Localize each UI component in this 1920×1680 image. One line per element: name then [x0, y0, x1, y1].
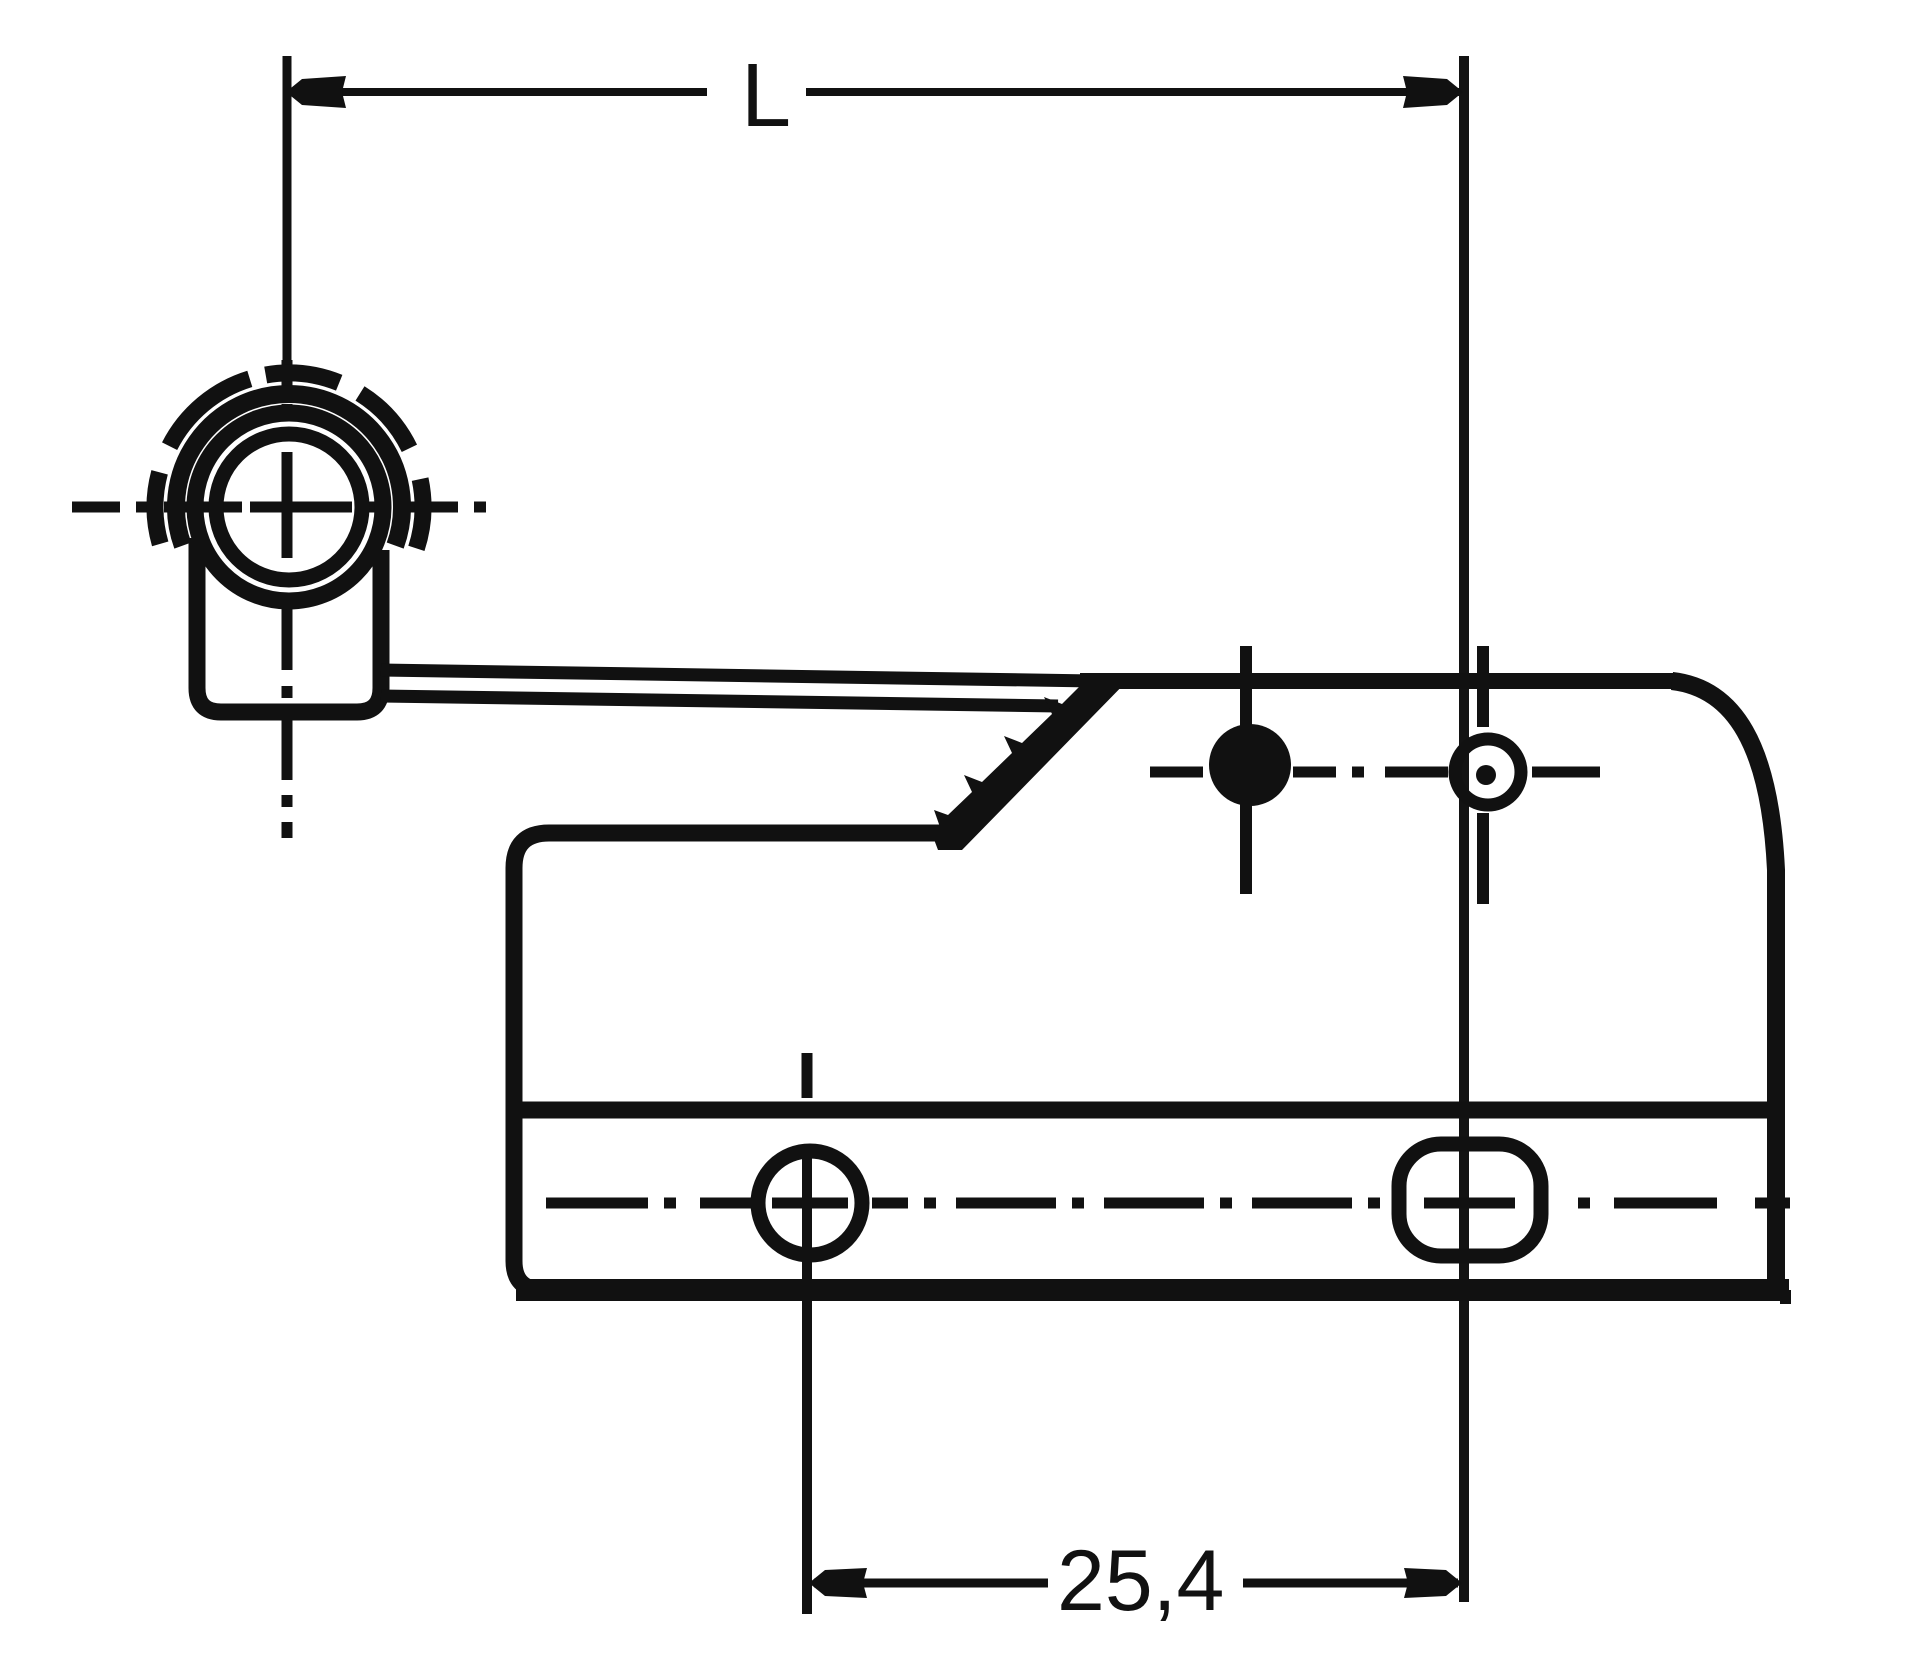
holes horizontal centerline — [546, 1198, 1790, 1209]
plunger vertical centerline — [1240, 646, 1252, 894]
svg-text:25,4: 25,4 — [1057, 1533, 1224, 1629]
bottom dimension line 25,4 left segment — [814, 1579, 1048, 1588]
roller dashed arc (alternate position) — [155, 373, 423, 548]
lever arm bottom line — [381, 696, 1058, 706]
body bottom edge — [516, 1279, 1789, 1301]
lever bracket (clevis) — [197, 538, 381, 712]
mounting hole obround — [1399, 1144, 1541, 1256]
arrowhead right of 25,4 — [1404, 1568, 1462, 1598]
arrowhead left of L dimension — [286, 76, 346, 108]
plunger pin (filled circle) — [1209, 724, 1291, 806]
extension line right (long vertical through body) — [1459, 56, 1469, 1602]
small circle (pin hole) — [1455, 739, 1521, 805]
mounting hole round — [758, 1151, 862, 1255]
round hole centerline + extension line down — [802, 1147, 812, 1614]
body right rounded corner and right edge — [1672, 681, 1776, 1290]
dimension line L left segment — [291, 88, 707, 96]
svg-text:L: L — [741, 46, 791, 146]
body step top line + left edge + bottom-left corner — [514, 833, 952, 1290]
lever arm top line — [381, 670, 1094, 681]
roller vertical centerline — [282, 360, 293, 838]
bottom-right corner nub — [1780, 1290, 1791, 1304]
round hole vertical centerline tick above midline — [802, 1053, 813, 1098]
roller inner circle (pin) — [216, 434, 362, 580]
arrowhead left of 25,4 — [809, 1568, 867, 1598]
body top edge — [1080, 673, 1674, 689]
bottom dimension line 25,4 right segment — [1243, 1579, 1458, 1588]
arrowhead right of L dimension — [1403, 76, 1463, 108]
roller outer arc (second position, solid) — [176, 394, 402, 546]
serrated diagonal (lever tip on body slope) — [932, 674, 1134, 850]
roller main circle — [195, 413, 383, 601]
extension line left (from roller center) — [283, 56, 292, 360]
body mid line (flange top) — [507, 1102, 1783, 1119]
small circle vertical centerline — [1477, 646, 1489, 904]
dimension line L right segment — [806, 88, 1459, 96]
roller horizontal centerline — [72, 502, 486, 513]
plunger/small-circle horizontal centerline — [1150, 767, 1600, 778]
small circle center dot — [1476, 765, 1496, 785]
